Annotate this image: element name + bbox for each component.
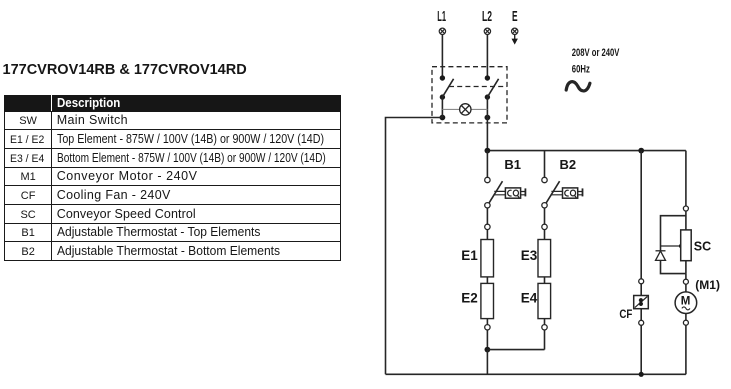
wire junction to bottom rail xyxy=(486,350,488,375)
svg-text:(M1): (M1) xyxy=(695,278,720,292)
wire pole2 lower xyxy=(486,97,488,117)
wire L2 pole to top rail xyxy=(486,118,488,151)
wire rail to B2 xyxy=(544,151,546,178)
wire motor to bottom rail xyxy=(685,325,687,374)
connector circle below E4 xyxy=(542,325,547,330)
wire to CF box xyxy=(640,284,642,296)
junction CF at bottom rail xyxy=(639,372,644,377)
wire SC loop bottom xyxy=(661,260,686,273)
svg-text:E4: E4 xyxy=(521,291,538,306)
svg-text:B1: B1 xyxy=(504,157,521,172)
svg-text:E3: E3 xyxy=(521,248,538,263)
main switch pole 2 blade xyxy=(487,79,498,97)
terminal L1 xyxy=(439,28,445,34)
connector circle above E1 xyxy=(485,224,490,229)
cooling fan CF xyxy=(634,296,649,309)
wire connector to E1 xyxy=(486,230,488,240)
wire connector down to element connector wire xyxy=(544,330,546,350)
connector circle below E2 xyxy=(485,325,490,330)
connector circle above motor xyxy=(683,279,688,284)
wire CF to bottom rail xyxy=(640,325,642,374)
svg-text:208V or 240V: 208V or 240V xyxy=(572,47,620,59)
wire motor down xyxy=(685,314,687,321)
svg-text:CF: CF xyxy=(619,309,632,321)
junction SC gate xyxy=(679,244,684,249)
wire L1 drop xyxy=(441,35,443,78)
lamp connector wires xyxy=(442,108,487,110)
svg-text:E2: E2 xyxy=(461,291,478,306)
svg-text:L2: L2 xyxy=(482,8,492,25)
junction below elements xyxy=(485,347,491,353)
motor M1 xyxy=(675,292,697,314)
legend table title xyxy=(3,62,247,78)
wire element bottoms connector xyxy=(487,349,544,351)
wire SC loop top xyxy=(661,216,686,251)
junction at B1 branch top xyxy=(485,148,491,154)
wire B2 to element connector xyxy=(544,208,546,224)
wire connector to E3 xyxy=(544,230,546,240)
wire SC gate tap xyxy=(661,245,682,247)
terminal L2 xyxy=(484,28,490,34)
wire to motor xyxy=(685,284,687,292)
main switch pole 2 contacts xyxy=(485,75,491,120)
main switch SW mechanical link (dashed) xyxy=(449,86,507,88)
main switch pole 1 contacts xyxy=(440,75,446,120)
wire E2 to connector xyxy=(486,319,488,325)
wire E1 to E2 xyxy=(486,277,488,284)
wire top rail xyxy=(487,150,686,152)
connector circle below motor xyxy=(683,320,688,325)
diode xyxy=(656,251,666,261)
AC source sine symbol xyxy=(566,82,590,91)
connector circle below CF xyxy=(639,320,644,325)
junction at CF branch top xyxy=(638,148,644,154)
svg-text:SC: SC xyxy=(694,239,711,253)
legend table xyxy=(4,95,341,261)
main switch SW dashed enclosure xyxy=(432,67,507,123)
svg-text:E: E xyxy=(512,8,518,25)
element E1 xyxy=(481,240,494,277)
connector circle above SC xyxy=(683,206,688,211)
wire L2 drop xyxy=(486,35,488,78)
svg-text:60Hz: 60Hz xyxy=(572,64,590,76)
connector circle above CF xyxy=(639,279,644,284)
element E2 xyxy=(481,283,494,318)
pilot lamp xyxy=(460,104,471,115)
wire CF branch xyxy=(640,151,642,279)
wire loop to motor xyxy=(685,274,687,280)
wire connector to junction xyxy=(486,330,488,350)
svg-text:E1: E1 xyxy=(461,248,478,263)
connector circle above E3 xyxy=(542,224,547,229)
element E4 xyxy=(538,283,551,318)
wire right branch down from rail xyxy=(685,151,687,206)
wire switch exit left xyxy=(386,118,443,375)
speed control SC xyxy=(681,230,692,261)
wire rail to B1 xyxy=(486,151,488,178)
main switch pole 1 blade xyxy=(442,79,453,97)
svg-text:B2: B2 xyxy=(560,157,577,172)
svg-text:L1: L1 xyxy=(437,8,446,25)
wire SC main xyxy=(685,211,687,274)
thermostat B2 xyxy=(542,177,583,208)
earth arrow on E xyxy=(512,35,518,45)
element E3 xyxy=(538,240,551,277)
wire pole1 lower xyxy=(441,97,443,117)
thermostat B1 xyxy=(485,177,526,208)
wire CF box down xyxy=(640,309,642,321)
wire E4 to connector xyxy=(544,319,546,325)
wire B1 to element connector xyxy=(486,208,488,224)
terminal E xyxy=(512,28,518,34)
svg-text:M: M xyxy=(681,296,691,308)
wire E3 to E4 xyxy=(544,277,546,284)
wire bottom rail xyxy=(386,373,686,375)
